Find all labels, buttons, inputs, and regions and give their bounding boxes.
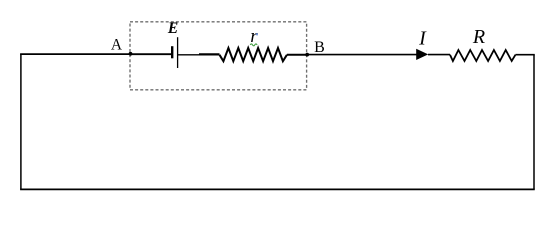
wire: arrow tip to resistor R (428, 54, 450, 56)
wire: battery to resistor r (178, 54, 220, 56)
wire: right vertical side of loop (533, 55, 535, 190)
resistor r (zigzag) (220, 48, 287, 61)
wire: top-left horizontal from left corner to node A (20, 53, 130, 55)
node B (305, 53, 309, 57)
svg-text:A: A (111, 37, 123, 54)
dashed box: source boundary around E and r (130, 22, 307, 90)
svg-text:E: E (167, 20, 178, 37)
wire: bottom side of loop (20, 188, 535, 190)
wire: left vertical side of loop (20, 54, 22, 189)
wire: thicker overlap segment before resistor r (199, 53, 220, 55)
wire: resistor r to node B (287, 54, 307, 56)
current arrow I (direction of current) (416, 49, 428, 60)
node A (129, 52, 133, 56)
svg-text:B: B (314, 39, 325, 56)
battery E: short thick negative plate (171, 46, 173, 58)
wire: node A to battery left plate (131, 53, 173, 55)
svg-text:R: R (472, 26, 485, 48)
wire: node B to current arrow (307, 54, 417, 56)
spellcheck squiggle under label r (250, 44, 257, 46)
resistor R (zigzag) (450, 50, 516, 61)
svg-text:I: I (418, 28, 427, 50)
wire: resistor R to top-right corner (516, 54, 535, 56)
blue mark at top of label r (256, 33, 258, 35)
battery E: long thin positive plate (177, 37, 179, 68)
